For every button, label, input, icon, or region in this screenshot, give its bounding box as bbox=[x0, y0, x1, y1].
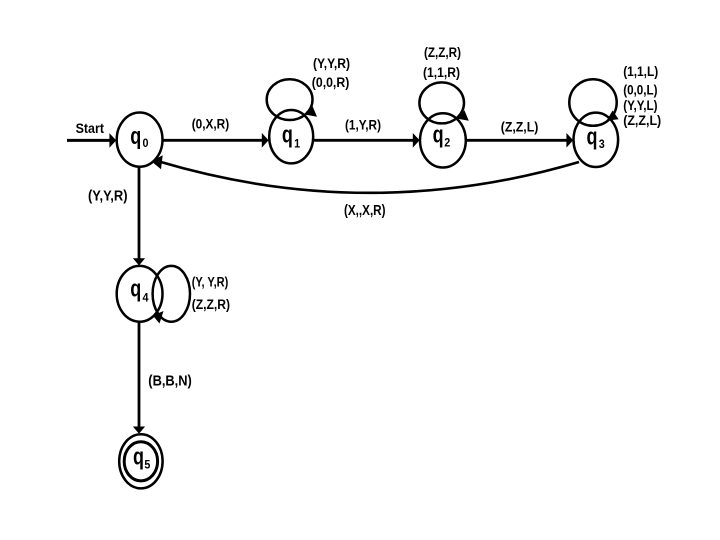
svg-text:(Y,Y,R): (Y,Y,R) bbox=[313, 56, 350, 71]
svg-text:(Z,Z,L): (Z,Z,L) bbox=[623, 113, 661, 128]
svg-text:2: 2 bbox=[444, 136, 450, 150]
state q4 bbox=[117, 266, 163, 322]
state q2 bbox=[420, 113, 466, 167]
label (Z,Z,L) on q3 loop bbox=[623, 113, 661, 128]
label (1,1,R) on q2 loop bbox=[423, 65, 460, 80]
state q1 bbox=[269, 110, 313, 163]
svg-text:q: q bbox=[130, 123, 141, 150]
self-loop q3 bbox=[569, 79, 618, 126]
label (0,X,R) bbox=[192, 116, 230, 131]
svg-text:(Z,Z,R): (Z,Z,R) bbox=[424, 45, 461, 60]
svg-text:(0,X,R): (0,X,R) bbox=[192, 116, 230, 131]
label (1,1,L) on q3 loop bbox=[623, 64, 658, 79]
label (Y,Y,R) on q0-q4 arrow bbox=[88, 188, 128, 205]
label (Z,Z,R) on q2 loop bbox=[424, 45, 461, 60]
svg-text:(1,1,L): (1,1,L) bbox=[623, 64, 658, 79]
svg-text:(1,Y,R): (1,Y,R) bbox=[345, 117, 381, 132]
self-loop q1 bbox=[267, 79, 317, 120]
svg-text:(B,B,N): (B,B,N) bbox=[148, 373, 192, 390]
label (B,B,N) bbox=[148, 373, 192, 390]
transition curve q3 to q0 bbox=[151, 155, 579, 193]
label (X,,X,R) bbox=[344, 202, 386, 219]
self-loop q2 bbox=[419, 82, 468, 123]
label (Y,Y,L) on q3 loop bbox=[623, 98, 657, 113]
svg-text:(Y,Y,L): (Y,Y,L) bbox=[623, 98, 657, 113]
transition arrow q2 to q3 bbox=[466, 133, 574, 148]
self-loop q4 bbox=[153, 266, 190, 324]
label (Y, Y,R) on q4 loop bbox=[192, 275, 229, 290]
svg-text:(0,0,R): (0,0,R) bbox=[312, 75, 350, 90]
svg-text:0: 0 bbox=[143, 136, 149, 150]
svg-text:5: 5 bbox=[144, 458, 150, 472]
label (0,0,R) on q1 loop bbox=[312, 75, 350, 90]
state q3 bbox=[574, 113, 619, 167]
transition arrow q0 to q1 bbox=[162, 133, 269, 148]
svg-text:(Z,Z,R): (Z,Z,R) bbox=[192, 297, 230, 312]
svg-text:(Y,Y,R): (Y,Y,R) bbox=[88, 188, 128, 205]
svg-text:Start: Start bbox=[76, 121, 105, 136]
svg-text:(1,1,R): (1,1,R) bbox=[423, 65, 460, 80]
transition arrow q1 to q2 bbox=[313, 133, 420, 148]
svg-text:(Y, Y,R): (Y, Y,R) bbox=[192, 275, 229, 290]
label (Z,Z,R) on q4 loop bbox=[192, 297, 230, 312]
start arrow into q0 bbox=[67, 133, 116, 148]
label (0,0,L) on q3 loop bbox=[623, 82, 657, 97]
svg-text:3: 3 bbox=[599, 137, 605, 151]
svg-text:q: q bbox=[133, 444, 144, 471]
svg-text:q: q bbox=[282, 121, 293, 148]
label (1,Y,R) bbox=[345, 117, 381, 132]
svg-text:(Z,Z,L): (Z,Z,L) bbox=[501, 120, 539, 135]
label (Y,Y,R) on q1 loop bbox=[313, 56, 350, 71]
transition arrow q0 to q4 bbox=[133, 167, 145, 266]
svg-text:q: q bbox=[433, 122, 444, 149]
svg-text:(X,,X,R): (X,,X,R) bbox=[344, 202, 386, 219]
svg-text:q: q bbox=[130, 276, 141, 303]
svg-text:(0,0,L): (0,0,L) bbox=[623, 82, 657, 97]
transition arrow q4 to q5 bbox=[133, 322, 145, 434]
label Start bbox=[76, 121, 105, 136]
state q0 bbox=[117, 113, 163, 167]
svg-text:q: q bbox=[587, 123, 598, 150]
state q5 (accepting, double circle) bbox=[119, 434, 162, 488]
label (Z,Z,L) bbox=[501, 120, 539, 135]
svg-text:1: 1 bbox=[294, 136, 300, 150]
svg-text:4: 4 bbox=[143, 291, 149, 305]
